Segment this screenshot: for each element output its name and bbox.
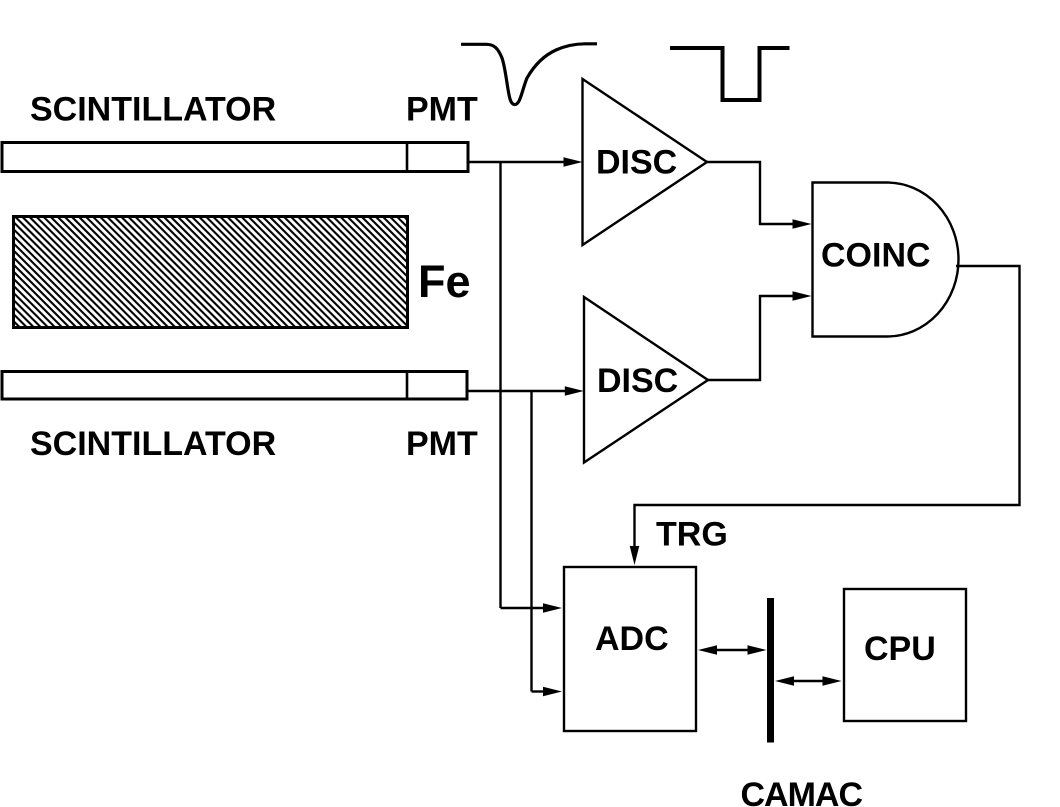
svg-text:CAMAC: CAMAC <box>741 776 863 807</box>
svg-text:DISC: DISC <box>597 362 678 400</box>
svg-text:COINC: COINC <box>821 237 931 275</box>
svg-text:Fe: Fe <box>418 256 471 307</box>
svg-text:SCINTILLATOR: SCINTILLATOR <box>30 91 276 129</box>
svg-text:TRG: TRG <box>656 516 728 554</box>
svg-text:PMT: PMT <box>406 91 478 129</box>
svg-text:CPU: CPU <box>864 630 936 668</box>
svg-text:ADC: ADC <box>595 620 669 658</box>
svg-text:PMT: PMT <box>406 425 478 463</box>
svg-text:SCINTILLATOR: SCINTILLATOR <box>30 425 276 463</box>
svg-text:DISC: DISC <box>596 144 677 182</box>
